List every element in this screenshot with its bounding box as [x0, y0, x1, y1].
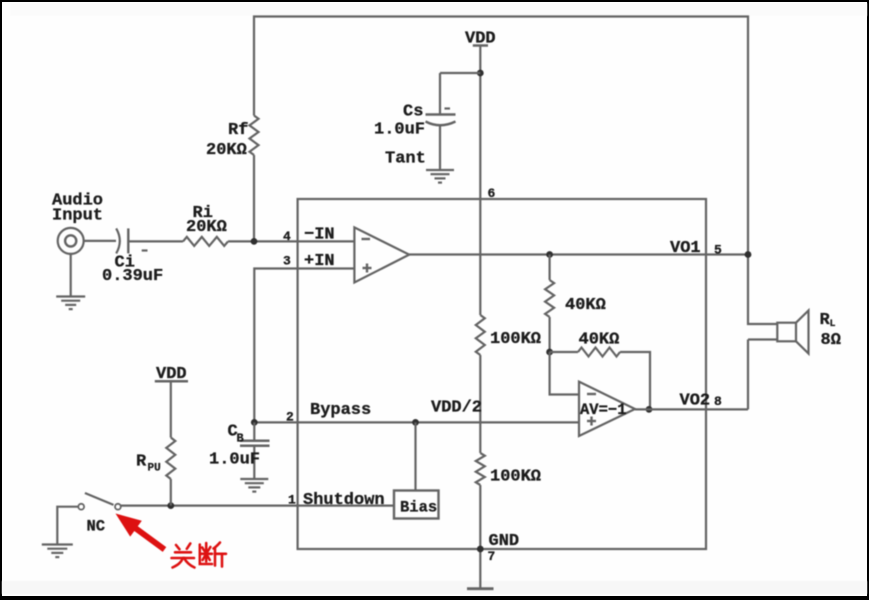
svg-text:VO2: VO2	[680, 392, 711, 411]
svg-text:8Ω: 8Ω	[821, 331, 841, 350]
svg-text:Tant: Tant	[385, 150, 426, 169]
svg-text:PU: PU	[148, 463, 161, 475]
svg-text:40KΩ: 40KΩ	[579, 331, 620, 350]
svg-text:VDD/2: VDD/2	[431, 399, 482, 418]
svg-text:3: 3	[283, 254, 291, 269]
svg-text:Rf: Rf	[228, 121, 248, 140]
svg-text:−IN: −IN	[304, 226, 335, 245]
svg-text:5: 5	[714, 243, 722, 258]
svg-text:Cs: Cs	[403, 103, 423, 122]
svg-text:40KΩ: 40KΩ	[565, 296, 606, 315]
svg-text:R: R	[136, 453, 147, 472]
svg-text:2: 2	[286, 410, 294, 425]
svg-text:Input: Input	[52, 207, 103, 226]
svg-text:NC: NC	[87, 518, 106, 536]
svg-text:+IN: +IN	[304, 252, 335, 271]
svg-text:1.0uF: 1.0uF	[209, 451, 260, 470]
svg-text:0.39uF: 0.39uF	[102, 267, 163, 286]
svg-text:8: 8	[714, 394, 722, 409]
svg-text:4: 4	[283, 229, 291, 244]
svg-text:1: 1	[288, 493, 296, 508]
svg-text:Shutdown: Shutdown	[303, 491, 385, 510]
svg-text:1.0uF: 1.0uF	[374, 121, 425, 140]
svg-text:VO1: VO1	[670, 239, 701, 258]
svg-text:VDD: VDD	[156, 365, 187, 384]
svg-text:Bias: Bias	[400, 499, 437, 517]
svg-text:20KΩ: 20KΩ	[206, 141, 247, 160]
svg-text:VDD: VDD	[465, 30, 496, 49]
svg-text:20KΩ: 20KΩ	[186, 218, 227, 237]
svg-text:100KΩ: 100KΩ	[490, 468, 541, 487]
svg-text:AV=−1: AV=−1	[580, 401, 627, 419]
svg-text:7: 7	[488, 549, 496, 564]
svg-text:L: L	[830, 319, 836, 330]
svg-text:6: 6	[488, 186, 496, 201]
svg-text:Bypass: Bypass	[310, 401, 371, 420]
svg-text:100KΩ: 100KΩ	[490, 330, 541, 349]
svg-text:B: B	[237, 432, 244, 446]
